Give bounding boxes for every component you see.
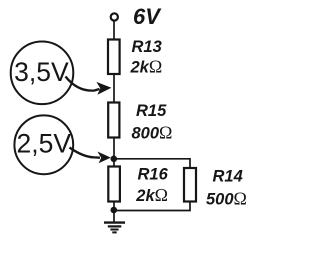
svg-text:500Ω: 500Ω — [206, 189, 247, 209]
probe circle 3,5V — [11, 42, 74, 105]
svg-text:3,5V: 3,5V — [14, 57, 69, 87]
wire R15 to R16 — [113, 138, 115, 168]
svg-text:2kΩ: 2kΩ — [130, 56, 163, 76]
node junction A (dot) — [111, 156, 118, 163]
svg-text:2kΩ: 2kΩ — [135, 185, 168, 205]
resistor R14 — [184, 168, 196, 202]
node junction B (dot) — [111, 207, 118, 214]
wire node A to R14 top — [114, 159, 190, 169]
probe circle 2,5V — [14, 115, 73, 174]
node 6V terminal — [111, 13, 118, 20]
wire node B to R14 bottom — [114, 202, 190, 211]
svg-text:800Ω: 800Ω — [132, 122, 173, 142]
wire terminal to R13 — [113, 21, 115, 40]
svg-text:2,5V: 2,5V — [17, 128, 72, 158]
svg-text:6V: 6V — [133, 4, 162, 29]
svg-text:R16: R16 — [138, 165, 169, 183]
resistor R15 — [108, 103, 119, 138]
arrow from 2,5V to node A — [70, 148, 101, 158]
svg-text:R13: R13 — [132, 38, 162, 56]
arrow from 3,5V to node between R13 and R15 — [66, 77, 100, 91]
resistor R16 — [108, 167, 120, 202]
svg-text:R15: R15 — [136, 102, 167, 120]
wire R13 to R15 — [113, 74, 115, 103]
ground — [104, 223, 125, 233]
wire R16 to ground — [113, 202, 115, 223]
resistor R13 — [108, 40, 120, 75]
svg-text:R14: R14 — [213, 168, 243, 186]
